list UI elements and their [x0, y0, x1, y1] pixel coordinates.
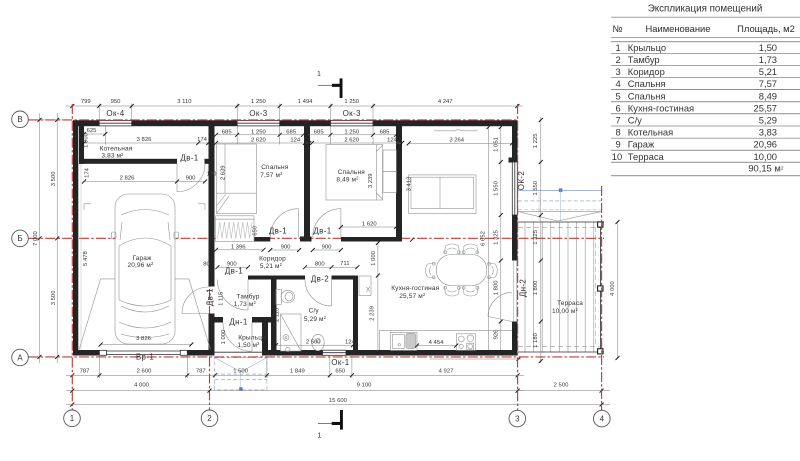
left dimension column lines — [28, 113, 72, 363]
svg-text:С/у: С/у — [628, 115, 642, 126]
room label bedroom2 — [336, 169, 365, 184]
exterior left wall — [73, 120, 78, 355]
svg-text:685: 685 — [222, 130, 233, 136]
exterior top wall segments — [73, 120, 518, 126]
car in garage — [112, 194, 179, 344]
porch right wall — [262, 323, 268, 356]
svg-text:799: 799 — [81, 99, 91, 105]
room label boiler — [100, 146, 133, 160]
terrace outline — [518, 222, 604, 352]
porch threshold line — [215, 351, 263, 353]
svg-text:900: 900 — [186, 176, 197, 182]
svg-text:Дн-2: Дн-2 — [519, 279, 528, 298]
door Dv-1 bedroom1 — [270, 209, 298, 237]
svg-text:Дв-1: Дв-1 — [205, 288, 214, 306]
room label corridor — [259, 255, 286, 270]
svg-text:5,21: 5,21 — [759, 66, 777, 77]
porch steps (blue) — [215, 358, 267, 391]
right inner dimension column (kitchen) — [489, 127, 501, 352]
svg-text:Коридор: Коридор — [628, 66, 665, 77]
svg-text:685: 685 — [286, 130, 297, 136]
svg-text:3: 3 — [515, 414, 520, 423]
svg-text:3 500: 3 500 — [51, 171, 57, 186]
wall right of bedroom2 — [396, 126, 402, 242]
room label porch — [237, 335, 266, 349]
svg-text:25,57: 25,57 — [754, 102, 777, 113]
svg-text:1,73 м2: 1,73 м2 — [234, 300, 257, 308]
svg-text:Дн-1: Дн-1 — [229, 318, 248, 327]
svg-text:1 000: 1 000 — [371, 250, 377, 265]
svg-text:Тамбур: Тамбур — [237, 293, 260, 301]
garage inner face line — [80, 164, 82, 350]
left dimension ticks — [38, 118, 60, 359]
svg-text:Котельная: Котельная — [100, 146, 133, 153]
svg-text:Ок-4: Ок-4 — [106, 109, 124, 118]
svg-text:4 927: 4 927 — [439, 368, 454, 374]
axis line V (horizontal red, top) — [28, 119, 517, 121]
bed bedroom1 — [217, 144, 257, 214]
svg-text:80: 80 — [203, 262, 210, 268]
svg-text:1 000: 1 000 — [84, 132, 90, 147]
svg-text:1 250: 1 250 — [251, 99, 266, 105]
corridor top wall segments — [254, 237, 396, 242]
svg-text:7 000: 7 000 — [33, 231, 39, 246]
bottom dimension row A — [66, 374, 360, 376]
svg-text:10,00 м2: 10,00 м2 — [552, 307, 579, 315]
bath right wall — [353, 276, 358, 356]
svg-text:3 264: 3 264 — [449, 138, 464, 144]
svg-text:9: 9 — [616, 139, 621, 150]
svg-text:1: 1 — [318, 433, 322, 440]
svg-text:8,49: 8,49 — [759, 90, 777, 101]
svg-text:8: 8 — [616, 127, 621, 138]
svg-text:10,00: 10,00 — [754, 151, 777, 162]
inner dims misc rotated — [83, 165, 413, 344]
svg-text:3: 3 — [616, 66, 621, 77]
svg-text:1 849: 1 849 — [290, 368, 305, 374]
window Ok-1 bottom wall — [323, 350, 347, 355]
svg-text:4 000: 4 000 — [610, 281, 616, 296]
axis line 4 (vertical red) — [601, 186, 603, 410]
svg-text:124: 124 — [345, 339, 356, 345]
svg-text:Кухня-гостиная: Кухня-гостиная — [391, 285, 439, 292]
explication table — [611, 4, 800, 176]
svg-text:1 250: 1 250 — [344, 130, 359, 136]
svg-text:950: 950 — [111, 99, 122, 105]
svg-text:7,57: 7,57 — [759, 78, 777, 89]
svg-text:1 250: 1 250 — [344, 99, 359, 105]
boiler room inner walls — [79, 125, 209, 164]
svg-text:4 000: 4 000 — [134, 383, 149, 389]
svg-text:3 500: 3 500 — [51, 290, 57, 305]
svg-text:Терраса: Терраса — [628, 151, 665, 162]
room label terrace — [552, 300, 583, 315]
svg-text:1,73: 1,73 — [759, 54, 777, 65]
svg-text:5,29 м2: 5,29 м2 — [304, 315, 327, 323]
svg-text:1 325: 1 325 — [533, 229, 539, 244]
bottom row kitchen 4927 — [430, 358, 521, 360]
svg-text:Наименование: Наименование — [646, 23, 711, 34]
wardrobe hatched (corridor closet) — [216, 216, 255, 242]
svg-text:2 620: 2 620 — [344, 138, 359, 144]
inner dims boiler room — [84, 134, 208, 182]
top dimension line row — [66, 105, 523, 107]
svg-text:174: 174 — [84, 167, 90, 178]
svg-text:1 325: 1 325 — [493, 229, 499, 244]
garage gate Vr-1 opening — [99, 350, 187, 355]
room label garage — [127, 255, 154, 269]
svg-text:ОК-2: ОК-2 — [517, 171, 526, 191]
svg-text:900: 900 — [281, 245, 292, 251]
svg-text:20,96: 20,96 — [754, 139, 777, 150]
svg-text:Котельная: Котельная — [628, 127, 673, 138]
axis circle 3 — [509, 410, 526, 427]
exterior bottom wall segments — [73, 350, 518, 356]
svg-text:Спальня: Спальня — [261, 164, 288, 171]
section mark 1 bottom — [318, 410, 343, 440]
garage right wall (axis 2) — [209, 126, 215, 356]
terrace posts — [598, 222, 603, 354]
tambour/bath wall — [271, 280, 277, 356]
corridor area dims — [216, 227, 456, 346]
axis circle V — [12, 111, 29, 128]
svg-text:9 100: 9 100 — [357, 383, 372, 389]
svg-text:Ок-3: Ок-3 — [343, 109, 361, 118]
left dimension texts (rotated) — [33, 171, 57, 305]
svg-text:2 826: 2 826 — [120, 176, 135, 182]
bottom dimension row B — [66, 390, 523, 392]
tambour bottom wall segments — [215, 317, 277, 323]
svg-text:1 550: 1 550 — [533, 180, 539, 195]
svg-text:В: В — [17, 115, 22, 124]
axis circle 4 — [594, 410, 611, 427]
svg-text:800: 800 — [315, 261, 326, 267]
svg-text:Дв-1: Дв-1 — [180, 154, 198, 163]
room label tambour — [234, 293, 260, 309]
svg-text:Вр-1: Вр-1 — [136, 353, 154, 362]
window Ok-3 bedroom2 — [331, 121, 374, 126]
bed bedroom2 — [326, 145, 397, 201]
svg-text:4: 4 — [616, 78, 621, 89]
svg-text:1: 1 — [70, 414, 75, 423]
inner dims bedrooms top — [216, 135, 512, 144]
kitchen left dim column — [377, 243, 379, 352]
svg-text:2: 2 — [616, 54, 621, 65]
svg-text:650: 650 — [335, 368, 346, 374]
kitchen counter — [380, 330, 513, 350]
svg-text:1 500: 1 500 — [233, 368, 248, 374]
window Ok-3 bedroom1 — [237, 121, 280, 126]
svg-text:Гараж: Гараж — [132, 255, 152, 262]
svg-text:124: 124 — [387, 138, 398, 144]
axis circle 2 — [201, 410, 218, 427]
svg-text:5,29: 5,29 — [759, 115, 777, 126]
exterior right wall segments — [509, 120, 518, 355]
svg-text:711: 711 — [340, 261, 349, 267]
svg-text:3,83 м2: 3,83 м2 — [101, 152, 124, 160]
svg-text:4 247: 4 247 — [438, 99, 453, 105]
svg-text:1 000: 1 000 — [221, 329, 227, 344]
kitchen sink unit — [390, 332, 417, 350]
svg-text:1 225: 1 225 — [533, 133, 539, 148]
room label bath — [304, 308, 327, 323]
svg-text:1 051: 1 051 — [493, 137, 499, 152]
svg-text:1 550: 1 550 — [493, 180, 499, 195]
svg-text:685: 685 — [314, 130, 325, 136]
garage gate inner dim — [101, 344, 192, 346]
right outer dimension column — [540, 117, 542, 363]
svg-text:1: 1 — [616, 42, 621, 53]
svg-text:1 800: 1 800 — [533, 280, 539, 295]
svg-text:2 620: 2 620 — [251, 138, 266, 144]
svg-text:900: 900 — [322, 245, 333, 251]
svg-text:Крыльцо: Крыльцо — [628, 42, 666, 53]
svg-text:685: 685 — [380, 130, 391, 136]
svg-text:2 600: 2 600 — [137, 368, 152, 374]
canopy over terrace (blue) — [518, 188, 602, 222]
svg-text:6 652: 6 652 — [480, 231, 486, 246]
svg-text:124: 124 — [290, 138, 301, 144]
window Ok-4 — [99, 121, 132, 126]
svg-text:2 500: 2 500 — [306, 339, 321, 345]
svg-text:Ок-3: Ок-3 — [249, 109, 267, 118]
svg-text:Дв-2: Дв-2 — [311, 275, 329, 284]
interior extension lines bedrooms — [105, 126, 373, 144]
svg-text:25,57 м2: 25,57 м2 — [399, 292, 426, 300]
wash basin — [312, 334, 324, 350]
canopy valley lines (gray V) — [518, 212, 602, 221]
door Dv-2 bath — [305, 280, 332, 307]
axis circle 1 — [64, 410, 81, 427]
svg-text:4 454: 4 454 — [429, 340, 444, 346]
svg-text:1,50: 1,50 — [759, 42, 777, 53]
axis line B-mid (horizontal red, middle) — [28, 237, 604, 239]
wall between bedroom1 and bedroom2 — [300, 126, 312, 242]
bottom dimension row C 15600 — [66, 404, 610, 406]
svg-text:2 115: 2 115 — [275, 307, 281, 322]
svg-text:174: 174 — [197, 137, 208, 143]
svg-text:2 639: 2 639 — [221, 165, 227, 180]
axis line 3 (vertical red) — [517, 104, 519, 410]
door garage-tambour leaf — [182, 287, 209, 314]
toilet — [276, 289, 295, 304]
axis line A (horizontal red, bottom) — [28, 356, 604, 358]
garage drive splay lines — [79, 279, 210, 349]
svg-text:Терраса: Терраса — [557, 300, 583, 307]
svg-text:2 239: 2 239 — [369, 306, 375, 321]
svg-text:Кухня-гостиная: Кухня-гостиная — [628, 102, 694, 113]
terrace inner dashed lines — [518, 227, 600, 346]
sofa-bed living room — [409, 175, 476, 214]
svg-text:8,49 м2: 8,49 м2 — [336, 176, 359, 184]
svg-text:1: 1 — [317, 71, 321, 78]
svg-text:650: 650 — [253, 225, 259, 236]
svg-text:15 600: 15 600 — [329, 398, 348, 404]
svg-text:№: № — [613, 23, 623, 34]
bottom row terrace 2500 — [518, 390, 610, 392]
svg-text:1,50 м2: 1,50 м2 — [237, 341, 260, 349]
svg-text:Ок-1: Ок-1 — [331, 358, 349, 367]
terrace deck boards — [525, 222, 594, 352]
svg-text:2: 2 — [207, 414, 212, 423]
svg-text:6: 6 — [616, 102, 621, 113]
svg-text:С/у: С/у — [309, 308, 320, 315]
svg-text:787: 787 — [196, 368, 206, 374]
svg-text:5: 5 — [616, 90, 621, 101]
svg-text:1 800: 1 800 — [493, 280, 499, 295]
svg-text:Крыльцо: Крыльцо — [238, 335, 266, 342]
svg-text:5 478: 5 478 — [83, 251, 89, 266]
svg-text:3,83: 3,83 — [759, 127, 777, 138]
svg-text:Спальня: Спальня — [628, 90, 666, 101]
window labels top — [106, 109, 361, 118]
svg-text:3 826: 3 826 — [136, 336, 151, 342]
chairs around table — [426, 244, 498, 296]
door Dv-1 tambour-corridor — [217, 280, 248, 311]
parking space corner marks — [84, 204, 205, 210]
svg-text:7: 7 — [616, 115, 621, 126]
axis line 2 (vertical red) — [209, 120, 211, 410]
corridor bottom wall segments — [248, 276, 358, 280]
window OK-2 right wall — [512, 162, 517, 215]
svg-text:7,57 м2: 7,57 м2 — [260, 171, 283, 179]
axis line 1 (vertical red) — [71, 104, 73, 410]
door Dn-1 entrance — [223, 323, 252, 352]
svg-text:Дв-1: Дв-1 — [225, 267, 243, 276]
top dimension ticks — [70, 104, 519, 108]
room label kitchen-living — [391, 285, 439, 300]
svg-text:Б: Б — [17, 234, 22, 243]
svg-text:1 494: 1 494 — [298, 99, 313, 105]
svg-text:Площадь, м2: Площадь, м2 — [737, 23, 795, 34]
shower tray — [281, 314, 302, 352]
svg-text:4: 4 — [600, 414, 605, 423]
kitchen vent shaft — [359, 276, 371, 296]
svg-text:Тамбур: Тамбур — [628, 54, 660, 65]
svg-text:1 396: 1 396 — [231, 244, 246, 250]
svg-text:3 110: 3 110 — [177, 99, 192, 105]
svg-text:1 250: 1 250 — [251, 130, 266, 136]
door Dv-1 boiler room — [177, 164, 205, 192]
svg-text:Дв-1: Дв-1 — [269, 226, 287, 235]
door Dn-2 terrace door leaf — [488, 261, 517, 322]
svg-text:3 826: 3 826 — [137, 137, 152, 143]
svg-text:Экспликация помещений: Экспликация помещений — [648, 4, 763, 15]
svg-text:2 500: 2 500 — [554, 383, 569, 389]
svg-text:787: 787 — [80, 368, 90, 374]
dining table — [436, 255, 487, 286]
room label bedroom1 — [260, 164, 288, 179]
svg-text:1 115: 1 115 — [218, 291, 224, 306]
svg-text:100: 100 — [207, 172, 218, 178]
terrace right dimension column 4000 — [617, 222, 619, 358]
svg-text:А: А — [17, 353, 23, 362]
svg-text:20,96 м2: 20,96 м2 — [127, 261, 154, 269]
svg-text:Гараж: Гараж — [628, 139, 655, 150]
svg-text:Спальня: Спальня — [628, 78, 666, 89]
axis circle B — [12, 230, 29, 247]
section mark 1 top — [317, 71, 342, 98]
svg-text:90,15 м2: 90,15 м2 — [748, 163, 784, 174]
curtain line top right — [434, 130, 478, 131]
top dimension texts — [81, 99, 453, 105]
svg-text:3 239: 3 239 — [368, 173, 374, 188]
svg-text:Дв-1: Дв-1 — [313, 226, 331, 235]
axis circle A — [12, 349, 29, 366]
svg-text:3 413: 3 413 — [407, 176, 413, 191]
kitchen stove — [456, 334, 475, 351]
svg-text:1 180: 1 180 — [533, 332, 539, 347]
svg-text:10: 10 — [612, 151, 622, 162]
door Dv-1 bedroom2 — [313, 209, 341, 237]
svg-text:Спальня: Спальня — [338, 169, 365, 176]
top dimension extension lines — [99, 104, 373, 121]
svg-text:1 620: 1 620 — [362, 221, 377, 227]
svg-text:5,21 м2: 5,21 м2 — [260, 262, 283, 270]
